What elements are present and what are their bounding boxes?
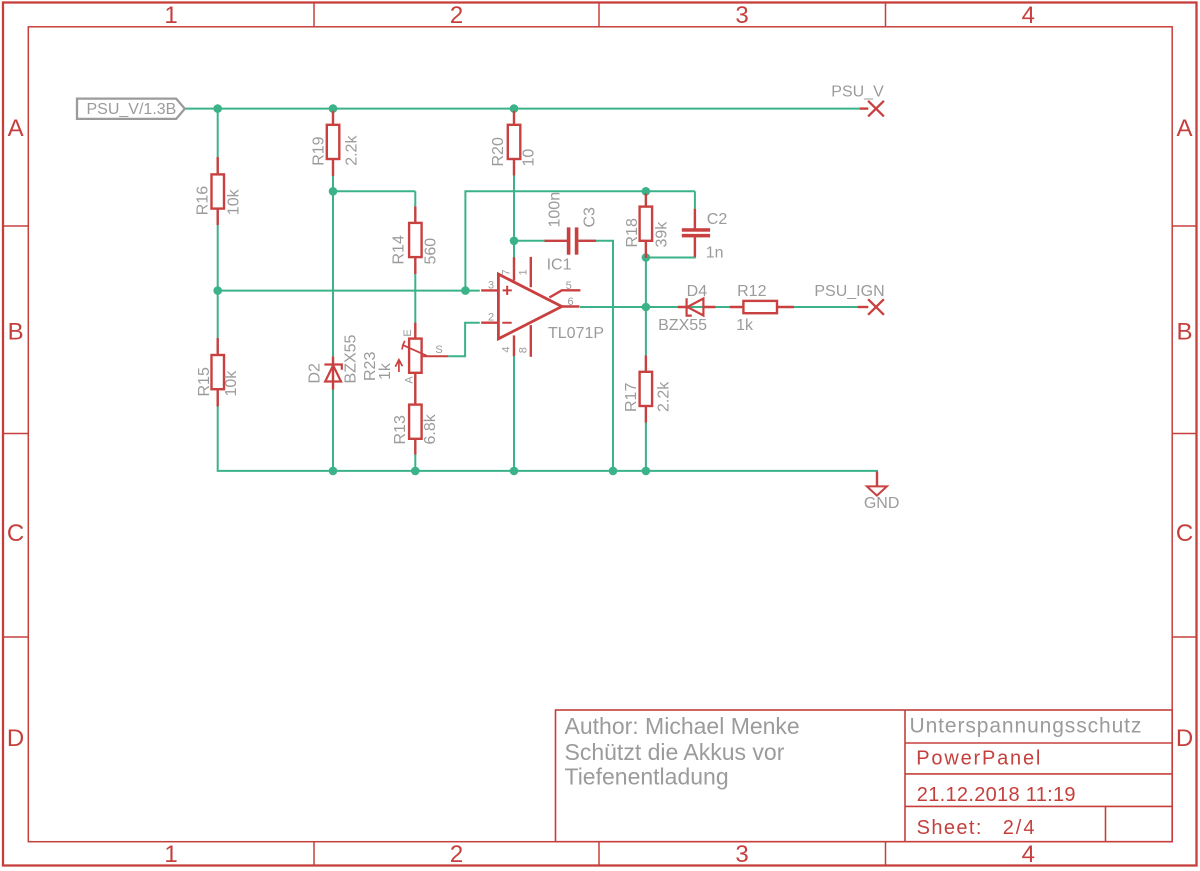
svg-text:Schützt die Akkus vor: Schützt die Akkus vor xyxy=(565,739,785,765)
svg-text:R18: R18 xyxy=(624,218,641,247)
svg-text:BZX55: BZX55 xyxy=(343,334,360,383)
svg-text:Sheet:: Sheet: xyxy=(917,817,983,839)
svg-text:21.12.2018 11:19: 21.12.2018 11:19 xyxy=(917,784,1076,806)
svg-text:1k: 1k xyxy=(377,362,394,380)
svg-text:39k: 39k xyxy=(654,221,671,248)
svg-text:A: A xyxy=(1176,115,1192,142)
svg-text:C: C xyxy=(7,520,24,547)
svg-text:E: E xyxy=(402,329,414,336)
svg-text:2.2k: 2.2k xyxy=(344,135,361,166)
svg-text:4: 4 xyxy=(1022,2,1035,29)
svg-text:10k: 10k xyxy=(226,188,243,215)
svg-text:3: 3 xyxy=(735,2,748,29)
svg-text:2: 2 xyxy=(488,312,494,324)
svg-text:2/4: 2/4 xyxy=(1003,817,1037,839)
svg-text:D4: D4 xyxy=(687,283,708,300)
svg-text:D: D xyxy=(1176,725,1193,752)
svg-text:PSU_IGN: PSU_IGN xyxy=(814,283,884,300)
svg-text:1: 1 xyxy=(164,2,177,29)
svg-text:Unterspannungsschutz: Unterspannungsschutz xyxy=(910,715,1143,738)
svg-text:PowerPanel: PowerPanel xyxy=(916,748,1042,770)
svg-text:3: 3 xyxy=(488,279,494,291)
svg-text:8: 8 xyxy=(518,347,530,353)
svg-text:R16: R16 xyxy=(195,186,212,215)
svg-text:R17: R17 xyxy=(623,383,640,412)
svg-text:1: 1 xyxy=(518,269,530,275)
svg-text:R20: R20 xyxy=(490,137,507,166)
svg-text:R13: R13 xyxy=(392,415,409,444)
svg-text:2: 2 xyxy=(450,841,463,868)
svg-text:10: 10 xyxy=(521,149,538,167)
svg-text:PSU_V/1.3B: PSU_V/1.3B xyxy=(87,101,177,118)
svg-text:6: 6 xyxy=(567,296,573,308)
svg-text:BZX55: BZX55 xyxy=(658,317,707,334)
svg-text:GND: GND xyxy=(864,495,900,512)
svg-text:3: 3 xyxy=(735,841,748,868)
svg-text:560: 560 xyxy=(423,238,440,265)
svg-text:A: A xyxy=(403,376,415,384)
svg-text:B: B xyxy=(8,319,24,346)
svg-text:D: D xyxy=(7,725,24,752)
svg-text:7: 7 xyxy=(500,269,512,275)
svg-text:IC1: IC1 xyxy=(547,256,572,273)
svg-text:4: 4 xyxy=(1022,841,1035,868)
svg-text:R19: R19 xyxy=(311,136,328,165)
svg-text:C3: C3 xyxy=(582,207,599,228)
svg-text:5: 5 xyxy=(566,280,572,292)
svg-text:6.8k: 6.8k xyxy=(422,413,439,444)
svg-text:4: 4 xyxy=(500,346,512,352)
svg-text:100n: 100n xyxy=(547,192,564,228)
svg-text:2: 2 xyxy=(450,2,463,29)
svg-text:R15: R15 xyxy=(196,367,213,396)
svg-text:Tiefenentladung: Tiefenentladung xyxy=(565,764,729,790)
svg-text:1n: 1n xyxy=(706,245,724,262)
svg-text:PSU_V: PSU_V xyxy=(831,84,884,101)
svg-text:B: B xyxy=(1176,319,1192,346)
svg-text:R14: R14 xyxy=(391,235,408,264)
svg-text:1: 1 xyxy=(164,841,177,868)
svg-text:10k: 10k xyxy=(223,370,240,397)
svg-text:Author: Michael Menke: Author: Michael Menke xyxy=(565,713,800,739)
svg-text:1k: 1k xyxy=(736,317,754,334)
svg-text:C2: C2 xyxy=(707,211,728,228)
svg-text:2.2k: 2.2k xyxy=(655,381,672,412)
svg-text:D2: D2 xyxy=(307,363,324,384)
svg-text:A: A xyxy=(8,115,24,142)
svg-text:S: S xyxy=(435,344,442,356)
svg-text:C: C xyxy=(1176,520,1193,547)
svg-text:TL071P: TL071P xyxy=(548,325,604,342)
svg-text:R12: R12 xyxy=(737,283,766,300)
